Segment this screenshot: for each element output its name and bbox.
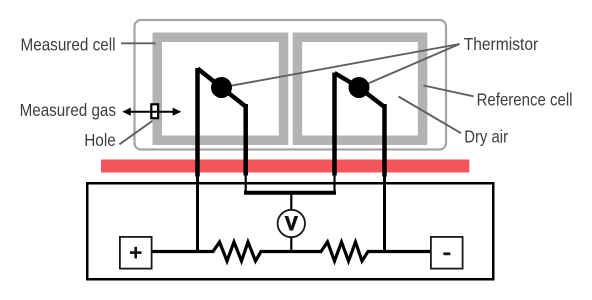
svg-text:V: V	[285, 214, 298, 235]
svg-text:Reference cell: Reference cell	[477, 89, 573, 109]
svg-text:Thermistor: Thermistor	[464, 34, 539, 54]
svg-text:Measured cell: Measured cell	[21, 35, 116, 55]
svg-text:Hole: Hole	[84, 130, 116, 150]
svg-text:Measured gas: Measured gas	[20, 100, 117, 120]
svg-text:Dry air: Dry air	[464, 126, 508, 146]
